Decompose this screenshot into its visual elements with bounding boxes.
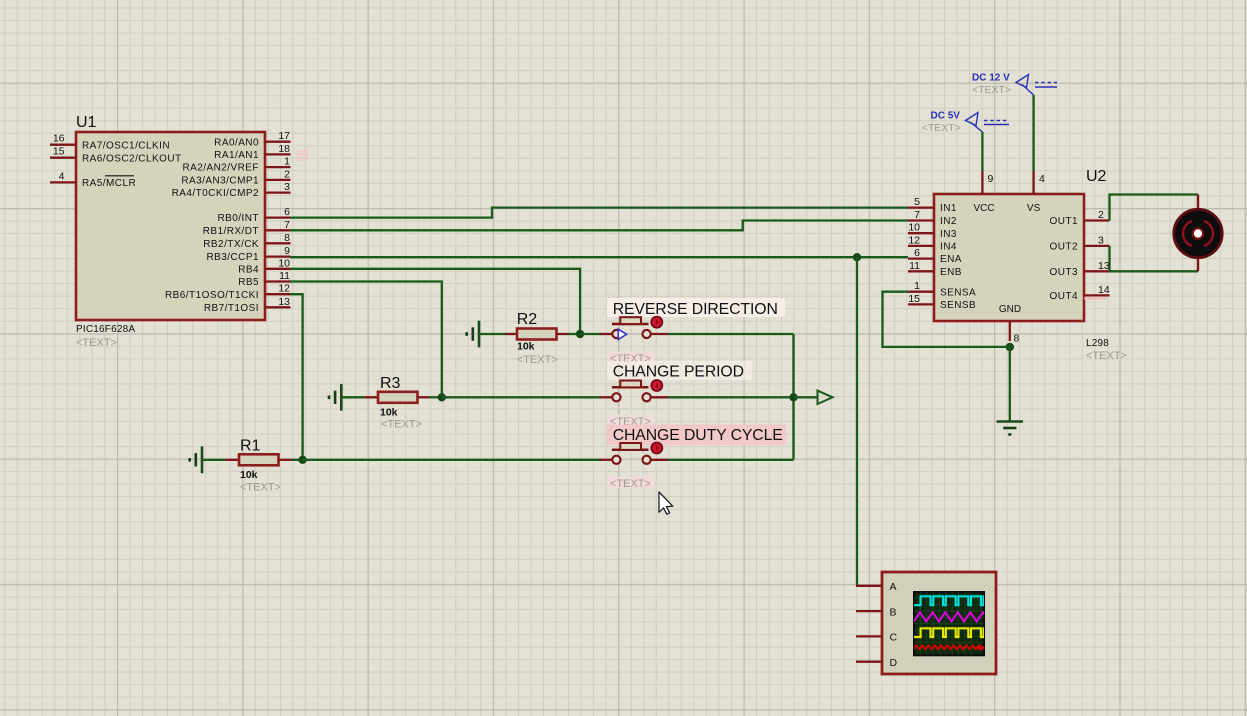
svg-text:OUT1: OUT1 bbox=[1050, 216, 1078, 227]
svg-text:D: D bbox=[890, 657, 898, 669]
U1 right pin stubs bbox=[265, 142, 291, 308]
wire button2 to right bus bbox=[668, 396, 794, 398]
junction node GND bbox=[1006, 343, 1014, 351]
scope trace channel A cyan bbox=[914, 596, 984, 605]
svg-text:RA5/MCLR: RA5/MCLR bbox=[82, 178, 136, 189]
motor bottom lead bbox=[1197, 257, 1199, 271]
svg-text:11: 11 bbox=[279, 270, 290, 282]
U2 left pin names bbox=[940, 203, 976, 311]
svg-text:6: 6 bbox=[914, 247, 920, 259]
wire SENSA to GND node bbox=[883, 292, 1010, 347]
wire R2 to node bbox=[568, 333, 580, 335]
svg-text:13: 13 bbox=[278, 296, 290, 308]
power terminal DC 5V symbol bbox=[966, 113, 1010, 133]
svg-text:10: 10 bbox=[278, 257, 290, 269]
resistor R1 value 10k bbox=[240, 469, 258, 481]
wire node to button 1 bbox=[580, 333, 601, 335]
svg-text:<TEXT>: <TEXT> bbox=[381, 419, 422, 431]
svg-text:R3: R3 bbox=[380, 375, 401, 392]
svg-text:4: 4 bbox=[59, 170, 65, 182]
svg-text:<TEXT>: <TEXT> bbox=[610, 478, 651, 490]
selection anchor arrow bbox=[618, 329, 626, 339]
wire ground to R1 bbox=[202, 459, 226, 461]
resistor R2 label R2 bbox=[517, 311, 538, 328]
junction node R2/RB4 bbox=[576, 330, 584, 338]
svg-text:11: 11 bbox=[909, 260, 920, 272]
wire R3 to node bbox=[429, 396, 442, 398]
U2 left pin stubs bbox=[908, 208, 934, 305]
resistor R3 value 10k bbox=[380, 407, 398, 419]
svg-text:RB7/T1OSI: RB7/T1OSI bbox=[204, 303, 259, 314]
button label CHANGE PERIOD bbox=[613, 364, 744, 381]
svg-text:14: 14 bbox=[1098, 284, 1110, 296]
svg-text:RA0/AN0: RA0/AN0 bbox=[214, 137, 259, 148]
svg-text:RB2/TX/CK: RB2/TX/CK bbox=[203, 239, 259, 250]
oscilloscope screen bbox=[914, 592, 984, 655]
svg-text:RB5: RB5 bbox=[238, 277, 259, 288]
ground terminal at R3 bbox=[329, 384, 341, 411]
svg-text:DC 5V: DC 5V bbox=[931, 111, 961, 122]
svg-text:L298: L298 bbox=[1086, 338, 1109, 349]
highlight behind CHANGE DUTY CYCLE label bbox=[607, 425, 786, 446]
svg-text:IN2: IN2 bbox=[940, 216, 957, 227]
svg-text:12: 12 bbox=[278, 283, 290, 295]
button1 text placeholder bbox=[610, 353, 651, 365]
svg-text:<TEXT>: <TEXT> bbox=[922, 122, 961, 134]
wire DC 5V to VCC bbox=[981, 132, 983, 172]
chip U2 ref label U2 bbox=[1086, 168, 1107, 185]
resistor R3 label R3 bbox=[380, 375, 401, 392]
power terminal DC 12 V text placeholder bbox=[972, 84, 1011, 96]
svg-text:RA1/AN1: RA1/AN1 bbox=[214, 150, 259, 161]
U1 left pin numbers bbox=[53, 133, 65, 183]
resistor R1 bbox=[239, 454, 279, 465]
svg-text:OUT3: OUT3 bbox=[1050, 267, 1078, 278]
svg-text:IN1: IN1 bbox=[940, 203, 957, 214]
button2 text placeholder bbox=[610, 416, 651, 428]
wire node to button 2 bbox=[442, 396, 601, 398]
U1 left pin names bbox=[82, 140, 182, 189]
U2 top pin stub 9 bbox=[982, 172, 993, 195]
svg-text:3: 3 bbox=[284, 181, 290, 193]
svg-text:7: 7 bbox=[914, 209, 920, 221]
wire ENA branch to scope A bbox=[856, 257, 858, 586]
svg-text:RA7/OSC1/CLKIN: RA7/OSC1/CLKIN bbox=[82, 140, 170, 151]
svg-text:<TEXT>: <TEXT> bbox=[972, 84, 1011, 96]
svg-text:SENSA: SENSA bbox=[940, 287, 976, 298]
output terminal arrow bbox=[818, 391, 833, 404]
svg-text:RB1/RX/DT: RB1/RX/DT bbox=[203, 226, 259, 237]
junction node R3/RB5 bbox=[438, 393, 446, 401]
svg-text:5: 5 bbox=[914, 196, 920, 208]
svg-text:18: 18 bbox=[278, 143, 290, 155]
svg-text:<TEXT>: <TEXT> bbox=[240, 482, 281, 494]
U2 label GND bbox=[999, 304, 1021, 315]
highlight behind button1 TEXT bbox=[608, 352, 654, 364]
scope trace channel C yellow bbox=[914, 628, 984, 637]
svg-text:CHANGE PERIOD: CHANGE PERIOD bbox=[613, 364, 744, 381]
svg-text:B: B bbox=[890, 606, 897, 618]
wire RB0 to IN1 bbox=[290, 208, 908, 218]
svg-text:U1: U1 bbox=[76, 114, 97, 131]
svg-text:<TEXT>: <TEXT> bbox=[517, 354, 558, 366]
ground terminal at R2 bbox=[467, 321, 479, 348]
svg-text:13: 13 bbox=[1098, 260, 1110, 272]
svg-text:C: C bbox=[890, 632, 898, 644]
wire GND junction to ground bbox=[1009, 347, 1011, 421]
wire RB5 down to R3 node bbox=[290, 282, 442, 398]
resistor R1 lead right bbox=[279, 459, 293, 461]
U2 top pin stub 4 bbox=[1034, 172, 1045, 195]
svg-text:10k: 10k bbox=[240, 469, 258, 481]
selection residue below pin 14 bbox=[1084, 297, 1106, 299]
svg-text:6: 6 bbox=[284, 206, 290, 218]
resistor R2 bbox=[517, 329, 557, 340]
wire OUT2 to OUT3 net bbox=[1108, 246, 1110, 271]
oscilloscope pin stubs A-D bbox=[856, 586, 882, 662]
oscilloscope body bbox=[882, 572, 996, 674]
motor M1 bbox=[1174, 209, 1222, 257]
wire RB4 down to R2 node bbox=[290, 269, 580, 334]
svg-text:SENSB: SENSB bbox=[940, 300, 976, 311]
svg-text:10: 10 bbox=[908, 222, 920, 234]
U1 right pin numbers bbox=[278, 130, 290, 308]
svg-text:16: 16 bbox=[53, 133, 65, 145]
svg-text:RA4/T0CKI/CMP2: RA4/T0CKI/CMP2 bbox=[172, 188, 259, 199]
button3 text placeholder bbox=[610, 478, 651, 490]
U2 bottom pin stub 8 bbox=[1010, 321, 1020, 345]
svg-text:IN4: IN4 bbox=[940, 242, 957, 253]
chip U1 body bbox=[76, 132, 265, 320]
svg-text:RB6/T1OSO/T1CKI: RB6/T1OSO/T1CKI bbox=[165, 290, 259, 301]
svg-text:1: 1 bbox=[914, 280, 920, 292]
highlight behind button2 TEXT bbox=[608, 415, 654, 427]
pushbutton CHANGE DUTY CYCLE bbox=[600, 442, 668, 464]
junction node bus bbox=[789, 393, 797, 401]
svg-text:RA6/OSC2/CLKOUT: RA6/OSC2/CLKOUT bbox=[82, 153, 182, 164]
wire RB3 to ENA bbox=[290, 256, 908, 258]
resistor R1 text placeholder bbox=[240, 482, 281, 494]
resistor R3 text placeholder bbox=[381, 419, 422, 431]
pushbutton REVERSE DIRECTION bbox=[600, 317, 668, 339]
U2 right pin stubs bbox=[1084, 221, 1110, 296]
highlight behind button3 TEXT bbox=[608, 477, 654, 489]
svg-text:CHANGE DUTY CYCLE: CHANGE DUTY CYCLE bbox=[613, 427, 783, 444]
power terminal DC 12 V label bbox=[972, 73, 1010, 84]
highlight behind CHANGE PERIOD label bbox=[607, 361, 752, 380]
svg-text:DC 12 V: DC 12 V bbox=[972, 73, 1010, 84]
svg-text:10k: 10k bbox=[380, 407, 398, 419]
pushbutton CHANGE PERIOD bbox=[600, 380, 668, 402]
svg-text:GND: GND bbox=[999, 304, 1021, 315]
U1 text placeholder bbox=[76, 337, 117, 349]
junction node R1/RB6 bbox=[298, 456, 306, 464]
svg-text:2: 2 bbox=[1098, 209, 1104, 221]
svg-text:12: 12 bbox=[908, 234, 920, 246]
wire DC 12 V to VS bbox=[1032, 95, 1034, 172]
svg-text:9: 9 bbox=[988, 173, 994, 185]
power terminal DC 12 V symbol bbox=[1016, 75, 1057, 96]
svg-text:REVERSE DIRECTION: REVERSE DIRECTION bbox=[613, 301, 778, 318]
svg-text:ENB: ENB bbox=[940, 267, 962, 278]
resistor R2 value 10k bbox=[517, 341, 535, 353]
ground symbol under U2 bbox=[997, 422, 1024, 435]
svg-text:VS: VS bbox=[1027, 203, 1041, 214]
svg-text:U2: U2 bbox=[1086, 168, 1107, 185]
svg-text:OUT4: OUT4 bbox=[1050, 291, 1078, 302]
U2 label VCC bbox=[973, 203, 994, 214]
chip U2 body bbox=[934, 194, 1084, 321]
U1 left pin stubs 16 15 4 bbox=[50, 145, 76, 183]
resistor R2 lead right bbox=[557, 333, 569, 335]
wire node to button 3 bbox=[303, 459, 601, 461]
svg-text:PIC16F628A: PIC16F628A bbox=[76, 324, 135, 335]
svg-text:RA2/AN2/VREF: RA2/AN2/VREF bbox=[182, 163, 259, 174]
U1 right pin names bbox=[165, 137, 259, 314]
svg-text:A: A bbox=[890, 581, 897, 593]
wire ground to R2 bbox=[479, 333, 505, 335]
resistor R2 text placeholder bbox=[517, 354, 558, 366]
svg-text:3: 3 bbox=[1098, 234, 1104, 246]
highlight behind REVERSE DIRECTION label bbox=[607, 298, 785, 317]
svg-text:<TEXT>: <TEXT> bbox=[1086, 350, 1127, 362]
wire ground to R3 bbox=[341, 396, 365, 398]
svg-text:15: 15 bbox=[53, 146, 65, 158]
svg-text:9: 9 bbox=[284, 245, 290, 257]
svg-text:R1: R1 bbox=[240, 437, 261, 454]
motor top lead bbox=[1197, 195, 1199, 211]
svg-text:VCC: VCC bbox=[973, 203, 994, 214]
wire right bus vertical bbox=[792, 334, 794, 460]
selection residue near pin 18 bbox=[295, 149, 308, 161]
svg-text:1: 1 bbox=[284, 156, 290, 168]
mouse cursor bbox=[659, 492, 673, 514]
resistor R2 lead left bbox=[505, 333, 517, 335]
svg-text:2: 2 bbox=[284, 168, 290, 180]
power terminal DC 5V text placeholder bbox=[922, 122, 961, 134]
power terminal DC 5V label bbox=[931, 111, 961, 122]
resistor R1 lead left bbox=[226, 459, 240, 461]
resistor R3 lead left bbox=[365, 396, 378, 398]
resistor R1 label R1 bbox=[240, 437, 261, 454]
wire RB6 down to R1 node bbox=[290, 294, 303, 460]
button label REVERSE DIRECTION bbox=[613, 301, 778, 318]
scope trace channel B magenta bbox=[914, 612, 990, 621]
scope trace channel D red bbox=[913, 645, 985, 649]
wire bus to output terminal bbox=[794, 396, 818, 398]
junction node ENA branch bbox=[853, 253, 861, 261]
U2 value label L298 bbox=[1086, 338, 1109, 349]
ground terminal at R1 bbox=[190, 446, 202, 473]
scope trace D end blob bbox=[978, 645, 983, 650]
svg-text:15: 15 bbox=[908, 293, 920, 305]
svg-text:8: 8 bbox=[1014, 333, 1020, 345]
resistor R3 bbox=[378, 392, 418, 403]
wire RB1 to IN2 bbox=[290, 221, 908, 231]
svg-text:10k: 10k bbox=[517, 341, 535, 353]
U2 right pin names bbox=[1050, 216, 1078, 302]
svg-text:4: 4 bbox=[1039, 173, 1045, 185]
wire R1 to node bbox=[292, 459, 303, 461]
wire button3 to right bus bbox=[668, 459, 794, 461]
U2 label VS bbox=[1027, 203, 1041, 214]
svg-text:ENA: ENA bbox=[940, 254, 962, 265]
svg-text:R2: R2 bbox=[517, 311, 538, 328]
U1 value label PIC16F628A bbox=[76, 324, 135, 335]
chip U1 ref label U1 bbox=[76, 114, 97, 131]
svg-text:OUT2: OUT2 bbox=[1050, 242, 1078, 253]
U2 text placeholder bbox=[1086, 350, 1127, 362]
svg-text:RB4: RB4 bbox=[238, 264, 259, 275]
U2 right pin numbers bbox=[1098, 209, 1110, 296]
wire OUT3 to motor bottom bbox=[1110, 270, 1199, 272]
oscilloscope pin labels A B C D bbox=[890, 581, 898, 669]
svg-text:7: 7 bbox=[284, 219, 290, 231]
resistor R3 lead right bbox=[418, 396, 430, 398]
button label CHANGE DUTY CYCLE bbox=[613, 427, 783, 444]
wire OUT1 to motor top bbox=[1110, 195, 1199, 221]
U2 left pin numbers bbox=[908, 196, 920, 305]
svg-text:RA3/AN3/CMP1: RA3/AN3/CMP1 bbox=[181, 176, 259, 187]
svg-text:RB3/CCP1: RB3/CCP1 bbox=[206, 252, 259, 263]
svg-text:17: 17 bbox=[278, 130, 290, 142]
svg-text:<TEXT>: <TEXT> bbox=[76, 337, 117, 349]
wire button1 to right bus bbox=[668, 333, 794, 335]
svg-text:RB0/INT: RB0/INT bbox=[218, 213, 260, 224]
svg-text:IN3: IN3 bbox=[940, 229, 957, 240]
svg-text:8: 8 bbox=[284, 232, 290, 244]
